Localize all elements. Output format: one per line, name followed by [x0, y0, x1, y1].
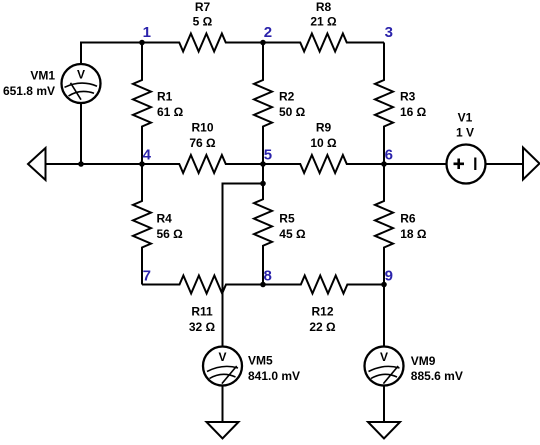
svg-text:V: V — [218, 350, 226, 364]
voltmeter VM5 — [203, 347, 300, 386]
svg-text:16 Ω: 16 Ω — [400, 105, 427, 119]
svg-text:841.0 mV: 841.0 mV — [248, 369, 300, 383]
wire node 5 down stub — [262, 164, 264, 184]
ground below VM9 — [368, 422, 400, 439]
node 4 — [139, 147, 151, 167]
svg-text:5 Ω: 5 Ω — [193, 15, 213, 29]
resistor R11 — [142, 276, 263, 335]
voltmeter VM9 — [365, 347, 463, 386]
svg-text:R10: R10 — [191, 121, 213, 135]
svg-text:V: V — [380, 350, 388, 364]
node 3 — [385, 24, 393, 41]
wire VM1 top lead to node 1 — [81, 43, 142, 64]
wire left port to node 4 — [46, 163, 143, 165]
svg-text:22 Ω: 22 Ω — [309, 320, 336, 334]
svg-text:4: 4 — [143, 147, 152, 164]
resistor R7 — [142, 0, 263, 52]
ground below VM5 — [207, 422, 239, 439]
wire VM1 bottom lead down to mid rail — [80, 104, 82, 165]
node 1 — [139, 24, 151, 45]
svg-text:18 Ω: 18 Ω — [400, 227, 427, 241]
svg-text:VM5: VM5 — [248, 354, 273, 368]
svg-text:1 V: 1 V — [456, 126, 474, 140]
svg-text:R7: R7 — [195, 0, 211, 14]
wire node 9 down to VM9 — [383, 285, 385, 347]
node 7 — [143, 268, 151, 285]
node 2 — [260, 24, 272, 45]
svg-text:1: 1 — [143, 24, 151, 41]
resistor R6 — [375, 164, 427, 285]
voltage source V1 — [447, 111, 486, 184]
svg-text:R9: R9 — [316, 121, 332, 135]
port flag right — [523, 148, 540, 180]
svg-text:32 Ω: 32 Ω — [189, 320, 216, 334]
svg-text:V1: V1 — [458, 111, 473, 125]
svg-text:R4: R4 — [157, 211, 173, 225]
svg-text:3: 3 — [385, 24, 393, 41]
node 9 — [381, 268, 393, 288]
svg-text:651.8 mV: 651.8 mV — [3, 84, 55, 98]
svg-text:9: 9 — [385, 268, 393, 285]
svg-text:R12: R12 — [311, 305, 333, 319]
wire V1 to right port — [486, 163, 524, 165]
resistor R10 — [142, 121, 263, 174]
svg-text:8: 8 — [264, 268, 272, 285]
svg-text:R5: R5 — [279, 211, 295, 225]
resistor R12 — [263, 276, 384, 335]
resistor R5 — [254, 184, 306, 285]
resistor R9 — [263, 121, 384, 174]
svg-text:2: 2 — [264, 24, 272, 41]
node 6 — [381, 147, 393, 167]
resistor R4 — [133, 164, 183, 285]
svg-text:VM9: VM9 — [411, 354, 436, 368]
svg-text:6: 6 — [385, 147, 393, 164]
wire node 6 to V1 — [384, 163, 447, 165]
svg-text:R6: R6 — [400, 211, 416, 225]
wire VM5 bottom lead — [222, 386, 224, 422]
svg-text:21 Ω: 21 Ω — [310, 15, 337, 29]
svg-text:R2: R2 — [279, 90, 295, 104]
svg-text:10 Ω: 10 Ω — [310, 136, 337, 150]
node 8 — [260, 268, 272, 288]
resistor R3 — [375, 43, 427, 165]
svg-text:R8: R8 — [316, 0, 332, 14]
svg-text:885.6 mV: 885.6 mV — [411, 369, 463, 383]
svg-text:61 Ω: 61 Ω — [157, 105, 184, 119]
junction at VM1 tap — [78, 161, 84, 167]
voltmeter VM1 — [3, 64, 101, 103]
resistor R2 — [254, 43, 306, 165]
svg-text:5: 5 — [264, 147, 272, 164]
wire VM9 bottom lead — [383, 386, 385, 422]
svg-text:R1: R1 — [157, 90, 173, 104]
junction below node 5 — [260, 181, 266, 187]
svg-text:V: V — [77, 68, 85, 82]
wire stub from node 5 junction left and down to VM5 — [223, 184, 264, 347]
svg-text:7: 7 — [143, 268, 151, 285]
svg-text:R11: R11 — [191, 305, 213, 319]
svg-text:50 Ω: 50 Ω — [279, 105, 306, 119]
svg-text:56 Ω: 56 Ω — [157, 227, 184, 241]
svg-text:VM1: VM1 — [30, 69, 55, 83]
svg-text:R3: R3 — [400, 90, 416, 104]
resistor R1 — [133, 43, 184, 165]
svg-text:45 Ω: 45 Ω — [279, 227, 306, 241]
resistor R8 — [263, 0, 384, 52]
port flag left — [28, 148, 46, 180]
svg-text:76 Ω: 76 Ω — [189, 136, 216, 150]
node 5 — [260, 147, 272, 167]
